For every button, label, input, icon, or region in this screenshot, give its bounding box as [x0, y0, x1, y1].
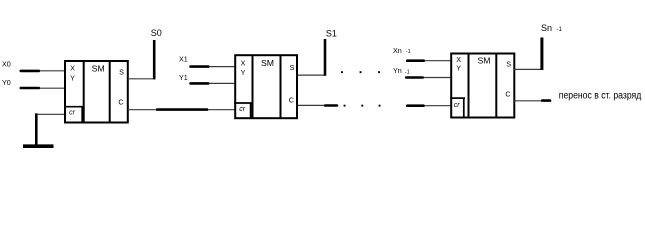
riser S0: [153, 40, 156, 79]
ellipsis dots upper: [341, 71, 380, 73]
label Sn-1: [541, 23, 562, 33]
svg-text:X: X: [241, 59, 246, 68]
svg-text:S: S: [290, 63, 295, 72]
svg-text:cr: cr: [239, 106, 246, 113]
svg-text:C: C: [289, 96, 294, 105]
wire carry into adder3 cr: [407, 105, 451, 107]
svg-text:C: C: [505, 90, 510, 99]
svg-text:Xn: Xn: [393, 46, 402, 55]
svg-text:Y: Y: [70, 74, 75, 83]
svg-text:Yn: Yn: [393, 66, 402, 75]
svg-text:Y: Y: [456, 64, 461, 73]
svg-text:C: C: [118, 98, 123, 107]
wire Yn-1 to adder3 pin Y: [405, 77, 451, 79]
svg-text:-1: -1: [557, 27, 563, 33]
wire X1 to adder2 pin X: [190, 66, 236, 68]
riser Sn-1: [540, 38, 543, 71]
wire adder2 C output: [298, 104, 338, 106]
svg-text:cr: cr: [69, 109, 76, 116]
svg-text:S0: S0: [151, 28, 162, 38]
svg-text:S: S: [506, 60, 511, 69]
label Yn-1: [393, 66, 410, 75]
svg-text:Y: Y: [241, 68, 246, 77]
wire adder1 S output: [129, 78, 156, 80]
riser S1: [324, 39, 327, 76]
svg-text:X0: X0: [2, 59, 11, 68]
wire ground to adder1 cr input: [37, 113, 66, 115]
wire Xn-1 to adder3 pin X: [406, 60, 451, 62]
svg-text:S1: S1: [326, 28, 337, 38]
svg-text:SM: SM: [477, 55, 490, 65]
ground: [23, 113, 54, 146]
svg-text:SM: SM: [92, 64, 105, 74]
wire adder1 C to adder2 cr: [129, 109, 236, 111]
svg-text:Sn: Sn: [541, 23, 552, 33]
ellipsis dots lower (carry chain): [344, 105, 381, 107]
svg-text:Y0: Y0: [2, 78, 11, 87]
full adder U1 (SM): [64, 61, 128, 123]
full adder U3 (SM): [450, 54, 514, 118]
label Xn-1: [393, 46, 411, 55]
wire adder3 C output (carry out): [514, 100, 550, 102]
svg-text:X: X: [70, 64, 75, 73]
wire X0 to adder1 pin X: [20, 70, 65, 72]
svg-text:X: X: [456, 55, 461, 64]
wire adder3 S output: [514, 68, 542, 70]
wire Y1 to adder2 pin Y: [190, 82, 236, 84]
svg-text:-1: -1: [406, 49, 411, 55]
svg-text:SM: SM: [261, 58, 274, 68]
svg-text:S: S: [119, 67, 124, 76]
wire Y0 to adder1 pin Y: [20, 87, 65, 89]
svg-text:-1: -1: [405, 69, 410, 75]
full adder U2 (SM): [234, 55, 297, 118]
svg-text:X1: X1: [179, 55, 188, 64]
wire adder2 S output: [298, 74, 327, 76]
svg-text:перенос в ст. разряд: перенос в ст. разряд: [559, 91, 642, 102]
svg-text:Y1: Y1: [179, 73, 188, 82]
svg-text:cr: cr: [454, 102, 461, 109]
